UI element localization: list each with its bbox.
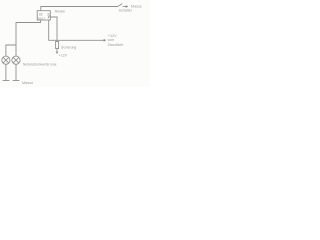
- svg-text:Masse: Masse: [131, 5, 142, 9]
- svg-text:30: 30: [47, 12, 51, 16]
- svg-text:Relais: Relais: [55, 10, 65, 14]
- svg-text:Sicherung: Sicherung: [61, 45, 76, 49]
- svg-text:Schalter: Schalter: [119, 8, 133, 12]
- svg-text:87: 87: [41, 17, 45, 21]
- svg-text:Masse: Masse: [22, 81, 33, 85]
- svg-text:Nebelscheinwerfer max.: Nebelscheinwerfer max.: [23, 63, 57, 67]
- svg-text:86: 86: [39, 12, 43, 16]
- svg-text:Standlicht: Standlicht: [108, 43, 124, 47]
- svg-text:+12V: +12V: [59, 53, 68, 57]
- svg-text:vom: vom: [108, 38, 115, 42]
